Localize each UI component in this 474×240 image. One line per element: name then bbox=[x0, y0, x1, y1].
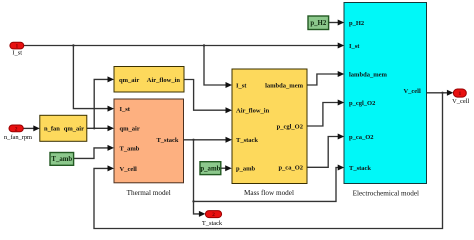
svg-text:I_st: I_st bbox=[120, 106, 131, 113]
svg-text:V_cell: V_cell bbox=[403, 88, 421, 95]
block p_H2 (green tag) bbox=[308, 16, 329, 30]
svg-text:Air_flow_in: Air_flow_in bbox=[236, 108, 270, 115]
svg-text:Electrochemical model: Electrochemical model bbox=[353, 189, 419, 197]
wire qm_air branch up to converter bbox=[94, 76, 114, 128]
svg-text:lambda_mem: lambda_mem bbox=[349, 71, 388, 78]
svg-text:p_cgl_O2: p_cgl_O2 bbox=[277, 123, 303, 130]
node I_st branch 1 bbox=[72, 44, 74, 46]
svg-text:T_amb: T_amb bbox=[51, 156, 72, 163]
wire lambda_mem to Electrochemical model bbox=[307, 71, 344, 85]
wire n_fan_rpm to n_fan block bbox=[23, 125, 40, 131]
svg-text:1: 1 bbox=[458, 91, 461, 97]
wire I_st branch to Thermal model bbox=[73, 46, 114, 112]
node T_stack branch 2 bbox=[192, 200, 194, 202]
svg-text:T_stack: T_stack bbox=[349, 165, 371, 172]
node I_st branch 2 bbox=[203, 44, 205, 46]
wire Air_flow_in converter to Mass flow model bbox=[184, 80, 232, 114]
block T_amb (green tag) bbox=[50, 153, 74, 166]
svg-text:I_st: I_st bbox=[349, 43, 360, 50]
svg-text:Mass flow model: Mass flow model bbox=[244, 189, 294, 197]
svg-text:T_amb: T_amb bbox=[120, 145, 140, 152]
svg-text:p_amb: p_amb bbox=[200, 166, 220, 173]
svg-text:qm_air: qm_air bbox=[64, 126, 84, 133]
node T_stack branch bbox=[192, 139, 194, 141]
svg-text:T_stack: T_stack bbox=[236, 137, 258, 144]
svg-text:n_fan: n_fan bbox=[44, 126, 60, 133]
wire V_cell output bbox=[427, 90, 454, 96]
outport V_cell oval bbox=[452, 89, 469, 105]
node qm_air branch bbox=[93, 127, 95, 129]
inport n_fan_rpm oval bbox=[4, 125, 32, 141]
svg-text:p_H2: p_H2 bbox=[349, 20, 364, 27]
svg-text:p_amb: p_amb bbox=[236, 166, 256, 173]
svg-text:I_st: I_st bbox=[12, 50, 22, 57]
svg-text:qm_air: qm_air bbox=[120, 126, 140, 133]
block Mass flow model bbox=[232, 69, 307, 197]
wire I_st branch to Mass flow model bbox=[204, 46, 232, 89]
svg-text:V_cell: V_cell bbox=[120, 166, 138, 173]
block Electrochemical model bbox=[344, 3, 427, 198]
wire T_stack to Electrochemical model bbox=[194, 165, 345, 202]
svg-text:T_stack: T_stack bbox=[202, 220, 223, 227]
svg-text:Thermal model: Thermal model bbox=[127, 189, 171, 197]
block n_fan qm_air bbox=[40, 115, 87, 141]
svg-text:p_H2: p_H2 bbox=[310, 20, 326, 27]
svg-text:qm_air: qm_air bbox=[119, 77, 139, 84]
svg-text:2: 2 bbox=[212, 212, 215, 218]
svg-text:p_ca_O2: p_ca_O2 bbox=[349, 134, 374, 141]
converter block qm_air to Air_flow_in bbox=[114, 67, 184, 93]
svg-text:lambda_mem: lambda_mem bbox=[265, 82, 304, 89]
wire p_cgl_O2 to Electrochemical model bbox=[307, 100, 344, 127]
wire T_stack down to outport bbox=[194, 140, 206, 217]
outport T_stack oval bbox=[202, 211, 223, 227]
svg-text:T_stack: T_stack bbox=[156, 137, 178, 144]
svg-text:V_cell: V_cell bbox=[452, 98, 469, 105]
inport I_st oval bbox=[10, 42, 24, 56]
block Thermal model bbox=[114, 99, 184, 197]
wire V_cell feedback to Thermal model bbox=[94, 93, 443, 229]
wire p_amb to Mass flow model bbox=[221, 165, 232, 171]
wire T_stack thermal to Mass flow model bbox=[184, 137, 233, 143]
svg-text:p_ca_O2: p_ca_O2 bbox=[278, 165, 303, 172]
node V_cell branch bbox=[441, 92, 443, 94]
svg-text:n_fan_rpm: n_fan_rpm bbox=[4, 134, 32, 141]
svg-text:p_cgl_O2: p_cgl_O2 bbox=[349, 100, 375, 107]
wire I_st main horizontal bbox=[24, 43, 344, 49]
svg-text:Air_flow_in: Air_flow_in bbox=[147, 77, 181, 84]
wire qm_air from n_fan to Thermal model bbox=[87, 125, 114, 131]
wire T_amb to Thermal model bbox=[74, 145, 114, 159]
svg-text:I_st: I_st bbox=[236, 82, 247, 89]
svg-text:2: 2 bbox=[15, 127, 18, 133]
wire p_H2 to Electrochemical model bbox=[329, 20, 345, 26]
wire p_ca_O2 to Electrochemical model bbox=[307, 134, 344, 168]
block p_amb (green tag) bbox=[200, 162, 221, 175]
